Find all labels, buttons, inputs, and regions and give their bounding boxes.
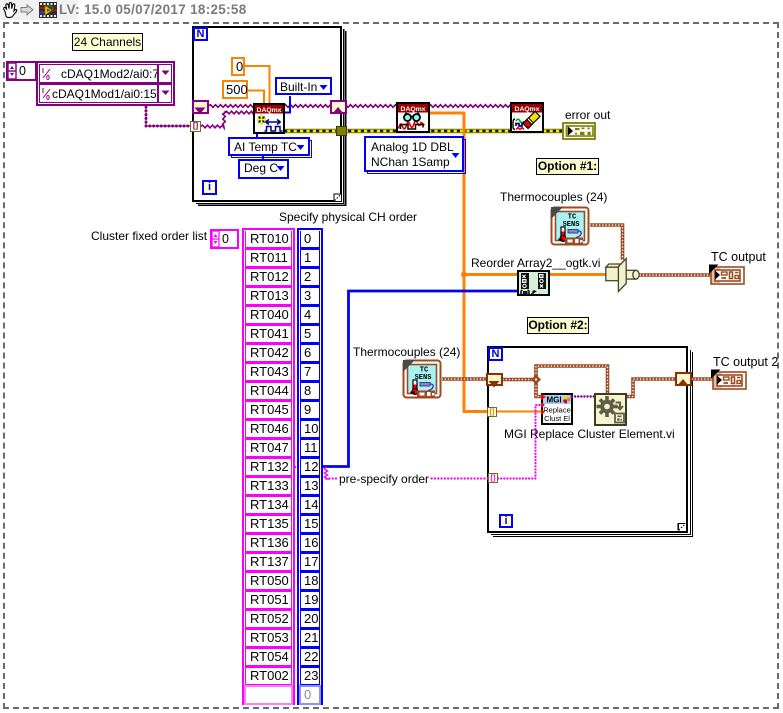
wire: constant 0 to create icon (orange) — [244, 66, 270, 104]
wire: funnel to TC output (brown beaded) — [637, 273, 711, 277]
ring constant Deg C — [238, 159, 289, 179]
label: Option #1: — [536, 158, 599, 175]
numeric array: specify physical CH order (0..23) — [297, 228, 323, 705]
label: MGI Replace Cluster Element.vi — [504, 427, 675, 441]
label: Reorder Array2__ogtk.vi — [471, 256, 600, 270]
toolbar forward arrow icon — [20, 4, 34, 16]
for-loop 1 frame — [192, 26, 342, 202]
svg-text:0: 0 — [46, 95, 50, 100]
label: 24 Channels — [72, 33, 143, 51]
label: error out — [565, 108, 610, 122]
for-loop 1 left shift register — [192, 100, 209, 114]
TC output 2 indicator — [710, 369, 747, 391]
label: TC output 2 — [713, 355, 778, 369]
wire: orange inside loop2 to MGI — [495, 411, 542, 413]
for-loop 2 left shift register — [486, 373, 503, 386]
enum constant Built-In — [275, 77, 332, 95]
TC output indicator — [708, 264, 745, 286]
wire: Thermocouples(24) 2 to loop2 shift register (brown beaded) — [442, 377, 488, 381]
for-loop 2 frame — [487, 346, 688, 533]
polymorphic selector Analog 1D DBL NChan 1Samp — [367, 139, 466, 174]
DAQmx physical channel constant array — [36, 61, 175, 106]
svg-text:I: I — [42, 88, 44, 95]
toolbar VI run icon — [39, 2, 57, 18]
toolbar title text — [59, 2, 247, 17]
for-loop 1 auto-index tunnel [] — [190, 121, 201, 132]
wire: constant 500 to create icon (orange) — [247, 91, 264, 105]
wire: loop2 right shift register to TC output 2 (brown beaded) — [692, 377, 713, 381]
toolbar hand (pan) tool icon — [1, 1, 18, 19]
toolbar background strip — [0, 0, 78, 20]
wire: reorder output to funnel (orange) — [549, 273, 608, 276]
wire: magenta inside loop2 up to MGI — [495, 405, 542, 479]
wire: pre-specify order string array (magenta dotted) — [292, 466, 322, 468]
wire: shift register to junction and MGI/gear (brown beaded) — [503, 378, 536, 382]
svg-text:MGI: MGI — [546, 396, 561, 405]
for-loop 1 right shift register — [330, 100, 347, 114]
wire: Built-In enum to create icon (blue) — [284, 96, 290, 113]
numeric constant 500 — [222, 80, 248, 99]
label: Specify physical CH order — [279, 210, 417, 224]
for-loop 2 iteration terminal i — [499, 514, 513, 528]
svg-text:Clust El: Clust El — [544, 414, 570, 423]
DAQmx Read icon — [396, 102, 430, 133]
for-loop 1 error tunnel (filled) — [336, 126, 347, 136]
for-loop 2 orange tunnel [] — [487, 407, 497, 417]
array-to-cluster funnel node — [606, 259, 639, 292]
string array index control (magenta) — [210, 229, 239, 249]
subVI Thermocouples (24) TC SENS icon — [550, 206, 590, 246]
junction: orange wire branch dot — [461, 272, 467, 278]
channel constant cDAQ1Mod2/ai0:7 — [40, 65, 171, 82]
MGI Replace Cluster Element icon — [541, 393, 573, 425]
junction: brown wire diamond — [531, 375, 541, 385]
for-loop 2 right shift register — [675, 372, 692, 386]
subVI Thermocouples (24) TC SENS icon #2 — [402, 359, 442, 399]
svg-text:DAQmx: DAQmx — [401, 106, 426, 113]
label: Option #2: — [527, 317, 589, 334]
svg-text:I: I — [42, 68, 44, 75]
channel constant cDAQ1Mod1/ai0:15 — [40, 85, 171, 102]
wire: DAQmx channel names into create (purple squiggle) — [200, 125, 224, 128]
wire: Thermocouples(24) VI to funnel (brown beaded) — [590, 225, 623, 260]
wire: MGI class out to gear (violet dotted) — [572, 395, 595, 397]
Reorder Array2__ogtk.vi icon — [517, 270, 550, 296]
svg-text:DAQmx: DAQmx — [257, 107, 282, 114]
label: Thermocouples (24) #2 — [353, 345, 460, 359]
DAQmx Create Virtual Channel icon — [253, 103, 285, 134]
for-loop 1 iteration terminal i — [202, 180, 217, 195]
DAQmx Clear Task icon — [510, 102, 544, 133]
label: Thermocouples (24) — [500, 190, 607, 204]
svg-text:0: 0 — [46, 75, 50, 80]
wire: error cluster (olive/yellow hatched) — [284, 129, 564, 134]
label: TC output — [711, 250, 766, 264]
label: Cluster fixed order list — [91, 229, 207, 243]
ring constant AI Temp TC — [231, 140, 312, 158]
for-loop 2 N terminal — [488, 347, 503, 361]
wire: specify order array to Reorder (blue) — [322, 291, 518, 467]
wire: DAQmx task (purple squiggle) — [208, 105, 511, 108]
error out indicator — [562, 122, 596, 140]
wire: gear output to right shift register (brown beaded) — [626, 379, 676, 397]
for-loop 2 magenta tunnel [] — [488, 473, 498, 483]
wire: Deg C ring up (blue) — [262, 155, 264, 161]
label: pre-specify order (on wire) — [338, 472, 430, 486]
numeric index control (purple) for channel array — [6, 61, 37, 81]
string array: cluster fixed order list (RT010...RT002) — [242, 228, 295, 705]
for-loop 1 N terminal — [193, 27, 208, 41]
wire: AI Temp TC ring to create icon (blue) — [256, 134, 258, 139]
wire: physical channel array to loop tunnel (purple beaded) — [146, 105, 191, 126]
numeric constant 0 — [231, 57, 245, 76]
gear (replace element) icon — [594, 393, 627, 426]
wire: sample data from DAQmx read, down to Option1/Option2 (orange) — [430, 113, 489, 412]
